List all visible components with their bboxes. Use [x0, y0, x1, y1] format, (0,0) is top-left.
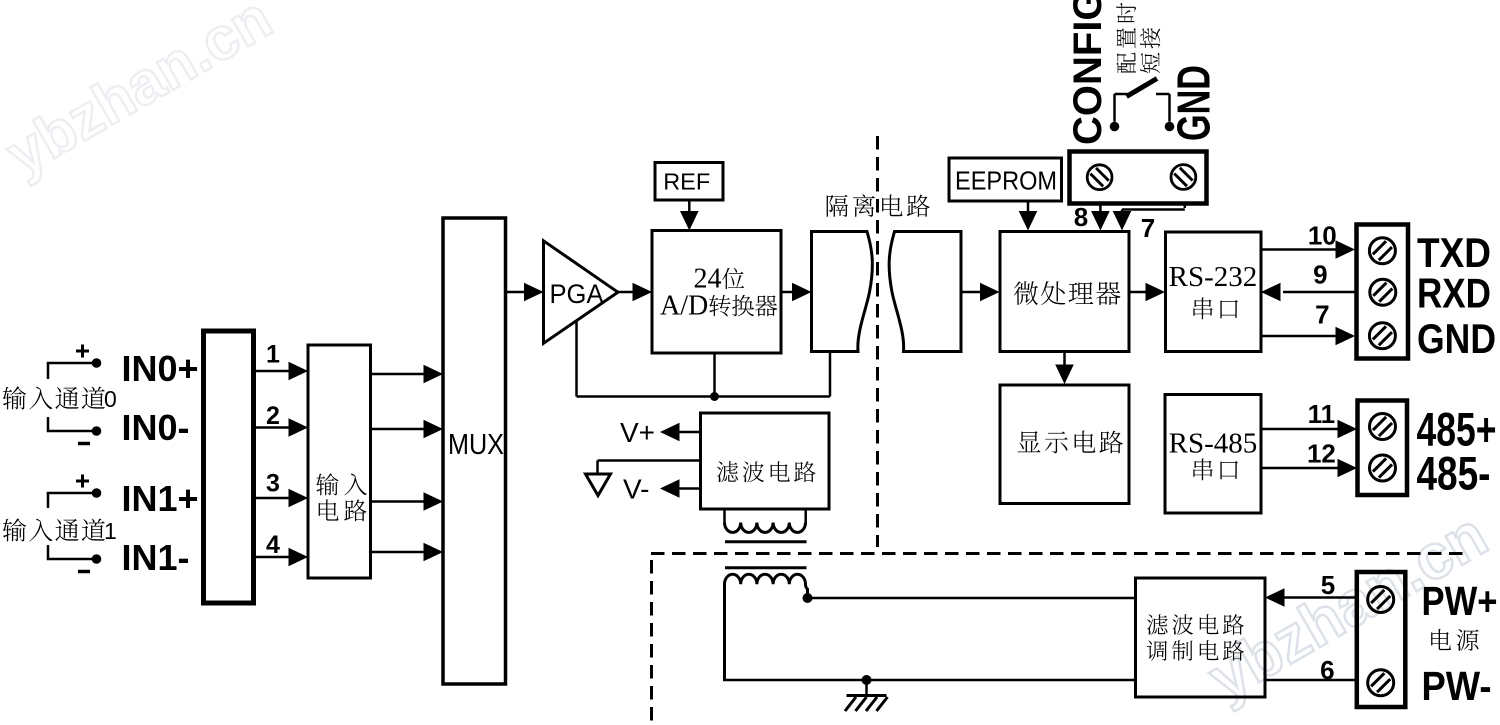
A/D converter box 24位A/D转换器 — [652, 231, 781, 354]
screw GND — [1369, 323, 1395, 349]
plus sign ch1 — [76, 480, 89, 483]
label 配置时短接 (rotated) — [1116, 53, 1136, 73]
switch config jumper — [1110, 122, 1120, 132]
plus sign ch0 — [76, 350, 89, 353]
svg-text:IN0-: IN0- — [122, 407, 190, 448]
svg-text:4: 4 — [266, 531, 280, 559]
MUX box — [443, 218, 506, 684]
node IN0+ terminal — [47, 363, 50, 379]
transformer core lines — [725, 540, 807, 543]
svg-text:GND: GND — [1417, 315, 1496, 362]
svg-text:RS-485: RS-485 — [1169, 428, 1258, 460]
junction dot feedback — [710, 392, 719, 401]
microprocessor box 微处理器 — [1000, 232, 1129, 352]
terminal block CONFIG/GND — [1070, 152, 1207, 204]
input circuit box 输入电路 — [308, 345, 371, 578]
svg-text:IN1+: IN1+ — [122, 478, 199, 519]
wire V+ arrow — [678, 431, 701, 434]
wire PGA feedback vertical — [575, 321, 578, 397]
minus sign ch1 — [78, 570, 90, 574]
RS-485 serial box — [1165, 395, 1261, 514]
svg-text:PGA: PGA — [550, 279, 604, 309]
junction dot transformer tap — [803, 593, 813, 603]
wire pin 3 to input circuit — [254, 497, 291, 500]
minus sign ch0 — [78, 442, 90, 446]
display circuit box 显示电路 — [1000, 385, 1129, 504]
svg-text:9: 9 — [1313, 260, 1327, 290]
wire feedback horizontal — [577, 395, 831, 398]
label 输入通道1 — [3, 518, 26, 541]
node IN1- terminal — [47, 545, 50, 559]
svg-text:7: 7 — [1315, 300, 1329, 330]
wire pin 1 to input circuit — [254, 370, 291, 373]
svg-text:485-: 485- — [1417, 447, 1491, 500]
screw 485- — [1370, 455, 1396, 481]
node IN0- terminal — [47, 417, 50, 431]
junction dot ground tap — [862, 675, 872, 685]
REF box — [655, 163, 723, 201]
svg-text:8: 8 — [1074, 202, 1088, 232]
label 电源 — [1431, 629, 1451, 650]
wire 5 PW+ to modulator — [1283, 596, 1356, 599]
wire 10 RS-232 to TXD — [1261, 248, 1337, 251]
wire EEPROM to microprocessor — [1027, 201, 1030, 217]
isolation block right — [889, 232, 961, 352]
transformer primary coil — [723, 509, 726, 523]
wire input circuit to MUX 1 — [371, 373, 426, 376]
svg-text:EEPROM: EEPROM — [955, 166, 1057, 196]
screw PW+ — [1368, 587, 1394, 613]
wire V- arrow — [678, 487, 701, 490]
wire transformer tap to modulator box — [808, 597, 1136, 600]
wire 7 RS-232 to GND — [1261, 335, 1337, 338]
wire 6 modulator to PW- — [1265, 679, 1356, 682]
wire isolation bottom vertical — [829, 352, 832, 397]
svg-text:2: 2 — [266, 402, 280, 430]
power dashed line horizontal — [651, 552, 1470, 555]
screw CONFIG — [1087, 165, 1112, 190]
svg-text:1: 1 — [266, 341, 280, 369]
screw TXD — [1369, 238, 1395, 264]
svg-text:3: 3 — [266, 470, 280, 498]
svg-text:RS-232: RS-232 — [1169, 261, 1258, 293]
svg-text:MUX: MUX — [448, 429, 504, 461]
wire microprocessor to display — [1063, 352, 1066, 368]
input terminal strip box — [204, 331, 254, 603]
wire REF to A/D — [688, 200, 691, 217]
wire to analog ground — [598, 459, 701, 462]
terminal block TXD/RXD/GND — [1357, 225, 1409, 359]
wire input circuit to MUX 4 — [371, 551, 426, 554]
svg-text:PW-: PW- — [1422, 663, 1492, 709]
wire pin 4 to input circuit — [254, 556, 291, 559]
op-amp PGA — [544, 241, 618, 343]
wire 9 RXD to RS-232 — [1283, 291, 1356, 294]
wire MUX to PGA — [506, 291, 527, 294]
svg-text:IN1-: IN1- — [122, 537, 190, 578]
terminal block 485 — [1358, 401, 1408, 496]
wire pin 2 to input circuit — [254, 426, 291, 429]
wire screw8 to microprocessor — [1099, 204, 1102, 218]
wire PGA to A/D — [618, 291, 634, 294]
screw 485+ — [1370, 414, 1396, 440]
svg-text:11: 11 — [1308, 399, 1336, 429]
switch blade — [1127, 79, 1158, 97]
wire 12 RS-485 to 485- — [1261, 467, 1339, 470]
screw GND — [1171, 165, 1196, 190]
svg-text:V+: V+ — [620, 417, 655, 448]
filter circuit box 滤波电路 — [701, 413, 830, 509]
svg-text:REF: REF — [663, 168, 710, 194]
filter modulator box 滤波电路调制电路 — [1136, 578, 1266, 697]
wire microprocessor to RS-232 — [1129, 291, 1147, 294]
label 隔离电路 — [827, 195, 848, 217]
power dashed line vertical left — [650, 560, 653, 725]
terminal block PW — [1357, 572, 1406, 707]
earth ground symbol — [865, 680, 868, 695]
wire bottom return — [723, 679, 1136, 682]
wire input circuit to MUX 3 — [371, 500, 426, 503]
svg-text:A/D: A/D — [660, 291, 708, 322]
svg-text:IN0+: IN0+ — [122, 348, 199, 389]
wire screw7 to microprocessor — [1184, 204, 1187, 209]
label 输入通道0 — [3, 386, 26, 409]
svg-text:7: 7 — [1141, 213, 1155, 243]
wire 11 RS-485 to 485+ — [1261, 428, 1339, 431]
transformer secondary coil — [725, 574, 808, 680]
node IN1+ terminal — [47, 493, 50, 508]
wire input circuit to MUX 2 — [371, 428, 426, 431]
svg-text:1: 1 — [104, 518, 117, 544]
svg-text:GND: GND — [1168, 65, 1220, 141]
svg-text:10: 10 — [1308, 221, 1337, 251]
isolation dashed line vertical — [876, 136, 879, 547]
svg-text:CONFIG: CONFIG — [1066, 0, 1110, 145]
screw PW- — [1368, 670, 1394, 696]
svg-text:V-: V- — [623, 474, 649, 505]
wire A/D to isolation — [781, 291, 794, 294]
svg-text:RXD: RXD — [1417, 270, 1491, 317]
svg-text:12: 12 — [1307, 439, 1336, 469]
wire A/D bottom vertical — [713, 353, 716, 397]
EEPROM box — [949, 158, 1062, 201]
screw RXD — [1370, 279, 1396, 305]
wire isolation to microprocessor — [961, 291, 982, 294]
isolation block left — [812, 232, 873, 352]
analog ground triangle — [586, 474, 611, 496]
RS-232 serial box — [1166, 232, 1262, 352]
svg-text:0: 0 — [104, 386, 117, 412]
